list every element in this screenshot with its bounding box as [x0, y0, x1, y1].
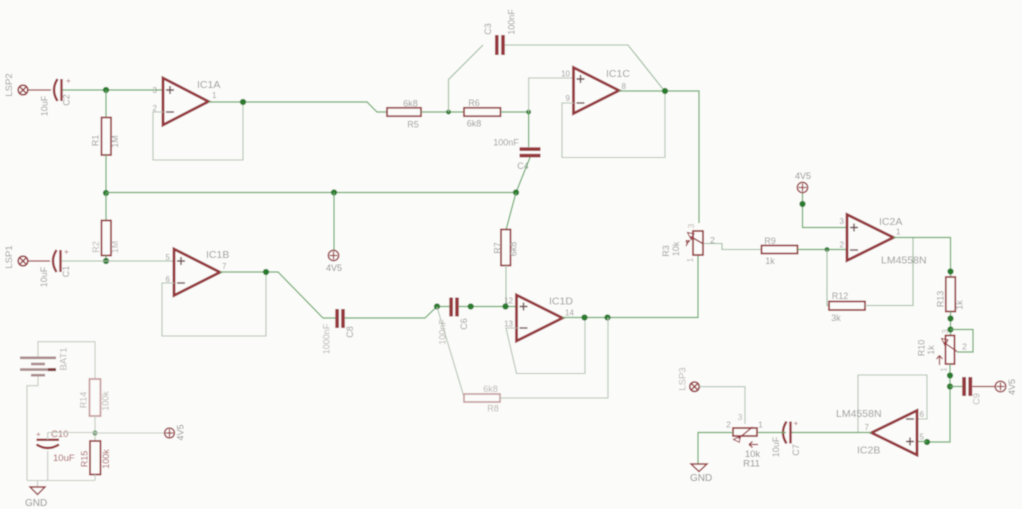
svg-text:10uF: 10uF [39, 266, 49, 287]
node R13 bottom [947, 315, 953, 321]
svg-text:R10: R10 [916, 340, 926, 357]
wire R11 left to GND [698, 433, 733, 465]
potentiometer R3 10k [661, 223, 715, 262]
solder pad LSP3 [678, 367, 700, 391]
svg-text:2: 2 [962, 342, 967, 352]
resistor R8 6k8 [464, 384, 500, 414]
wire 4V5 stub [333, 193, 335, 251]
svg-text:10k: 10k [671, 241, 681, 256]
wire LSP2 to C2 [28, 89, 51, 91]
svg-text:6k8: 6k8 [467, 119, 482, 129]
battery BAT1 [20, 347, 70, 375]
svg-text:IC2A: IC2A [879, 216, 902, 228]
svg-text:C3: C3 [483, 23, 493, 35]
svg-text:IC1B: IC1B [206, 249, 229, 261]
wire 4V5 to IC2A pin3 [803, 194, 848, 228]
potentiometer R10 1k [916, 329, 967, 372]
svg-text:3: 3 [840, 217, 845, 226]
wire IC1B output to C8 [220, 272, 336, 318]
svg-text:C2: C2 [61, 94, 71, 106]
resistor R2 1M [91, 221, 120, 256]
op-amp IC1C [561, 68, 630, 114]
resistor R13 1k [935, 277, 964, 312]
svg-text:R2: R2 [91, 241, 101, 253]
wire C3 to IC1C output [505, 45, 665, 91]
wire battery top to R14 [38, 342, 95, 379]
svg-text:GND: GND [690, 473, 712, 484]
svg-text:R14: R14 [78, 392, 88, 409]
svg-text:3: 3 [153, 86, 158, 95]
node C4 top junction [526, 110, 531, 115]
node R8 tap [604, 314, 610, 320]
svg-text:C10: C10 [51, 429, 68, 440]
svg-text:100k: 100k [100, 391, 110, 411]
svg-text:R9: R9 [764, 236, 776, 246]
svg-text:100nF: 100nF [437, 319, 447, 345]
wire to 4V5 left [95, 432, 164, 434]
capacitor C4 100nF [493, 138, 540, 172]
wire R6 right lead [501, 111, 529, 113]
svg-text:R13: R13 [935, 291, 945, 308]
wire C9 to 4V5 [973, 386, 996, 388]
wire R12 branch [827, 250, 829, 306]
svg-text:2: 2 [840, 241, 845, 250]
op-amp IC2A [840, 215, 927, 267]
svg-text:9: 9 [566, 94, 571, 103]
wire C4 bottom diagonal [516, 158, 530, 193]
capacitor C3 100nF [483, 9, 517, 55]
svg-text:4V5: 4V5 [1007, 379, 1017, 395]
op-amp IC1B [166, 249, 230, 296]
svg-text:1: 1 [896, 228, 901, 237]
wire IC2B feedback [858, 375, 927, 432]
wire C10 top [48, 433, 95, 440]
wire R5 to R6 [421, 111, 464, 113]
svg-text:BAT1: BAT1 [59, 347, 70, 370]
svg-text:1k: 1k [765, 256, 775, 266]
svg-text:+: + [36, 430, 41, 439]
wire C1 to IC1B pin5 [62, 260, 175, 262]
node IC1A output [240, 99, 246, 105]
wire LSP1 to C1 [28, 260, 50, 262]
svg-text:R7: R7 [492, 242, 502, 254]
capacitor C2 10uF polarized [39, 77, 71, 117]
wire IC1B feedback [162, 272, 266, 336]
resistor R15 100k [79, 441, 111, 475]
svg-text:10uF: 10uF [53, 453, 75, 464]
capacitor C8 1000nF [321, 309, 355, 354]
resistor R9 1k [762, 236, 798, 266]
svg-text:13: 13 [504, 320, 513, 329]
wire IC1D output [563, 255, 699, 318]
svg-text:3k: 3k [831, 313, 841, 323]
svg-text:C6: C6 [459, 318, 469, 330]
wire R10 bottom to IC2B pin5 [927, 364, 950, 442]
svg-text:LSP2: LSP2 [4, 73, 15, 96]
svg-text:+: + [794, 419, 799, 428]
svg-text:6k8: 6k8 [403, 99, 418, 109]
svg-text:R5: R5 [407, 120, 419, 130]
svg-text:7: 7 [865, 423, 870, 432]
svg-text:LSP1: LSP1 [4, 245, 15, 268]
supply 4V5 mid [326, 250, 342, 273]
resistor R7 6k8 [492, 230, 518, 266]
node C6 right [468, 303, 474, 309]
wire to R8 diagonal [437, 307, 464, 397]
wire R2 bottom lead [105, 256, 107, 262]
supply 4V5 top right [795, 171, 811, 193]
capacitor C9 [962, 377, 981, 405]
op-amp IC1D [504, 295, 574, 341]
svg-text:C1: C1 [61, 266, 71, 278]
node 4V5 tap [331, 189, 337, 195]
wire IC2B output to C7 [792, 432, 872, 434]
capacitor C6 100nF [437, 298, 469, 345]
wire R14 bottom [94, 416, 96, 441]
op-amp IC2B [836, 408, 925, 457]
svg-text:4V5: 4V5 [326, 263, 342, 273]
node IC2B pin5 [924, 439, 930, 445]
node IC1C output [662, 88, 668, 94]
svg-text:100nF: 100nF [493, 138, 519, 148]
svg-text:12: 12 [504, 297, 513, 306]
svg-text:10uF: 10uF [771, 436, 781, 457]
svg-text:LSP3: LSP3 [678, 367, 689, 390]
wire C6 to IC1D pin12 [459, 306, 517, 308]
svg-text:C9: C9 [971, 393, 981, 405]
svg-text:IC1A: IC1A [197, 79, 220, 91]
svg-text:+: + [66, 77, 71, 86]
svg-text:C8: C8 [345, 326, 355, 338]
svg-text:R1: R1 [90, 135, 100, 147]
wire R1 top lead [105, 90, 107, 118]
svg-text:100k: 100k [101, 449, 111, 469]
wire R12 to output [865, 238, 913, 306]
node B junction [103, 190, 109, 196]
wire R1 bottom lead [105, 155, 107, 193]
svg-text:5: 5 [920, 433, 925, 442]
solder pad LSP1 [4, 245, 28, 268]
wire C9 left lead [950, 386, 962, 388]
node R12 branch [825, 247, 830, 252]
wire R10 wiper tie box [951, 330, 974, 353]
wire IC1A feedback [153, 102, 243, 160]
svg-text:5: 5 [166, 253, 171, 262]
svg-text:6: 6 [920, 410, 925, 419]
svg-text:LM4558N: LM4558N [836, 408, 882, 420]
wire C8 to C6 [345, 307, 450, 319]
wire R3 wiper to R9 [704, 244, 762, 250]
svg-text:6k8: 6k8 [483, 384, 498, 394]
svg-text:8: 8 [622, 82, 627, 91]
ground GND right [690, 464, 712, 484]
node 4V5 stub [799, 201, 805, 207]
node IC1B output [263, 269, 269, 275]
svg-text:LM4558N: LM4558N [881, 255, 927, 267]
svg-text:IC2B: IC2B [857, 445, 880, 457]
node above R13 [947, 268, 953, 274]
wire IC1C feedback [562, 91, 665, 158]
svg-text:1: 1 [940, 367, 949, 372]
solder pad LSP2 [4, 73, 28, 96]
resistor R1 1M [90, 118, 120, 156]
svg-text:1k: 1k [954, 300, 964, 310]
node C3 branch [446, 110, 451, 115]
capacitor C1 10uF polarized [39, 248, 71, 288]
wire C4 top lead [528, 112, 530, 147]
wire long horizontal bus [106, 192, 516, 194]
node at C2/R1 [103, 87, 109, 93]
svg-text:R12: R12 [832, 291, 849, 301]
wire IC2A output [894, 238, 951, 278]
svg-text:100nF: 100nF [506, 9, 516, 35]
node C9 tap [947, 383, 953, 389]
wire R7 top diagonal [506, 193, 516, 231]
svg-text:GND: GND [25, 498, 47, 509]
wire IC1C output [619, 91, 699, 223]
wire R9 to IC2A pin2 [798, 249, 848, 251]
node C junction [103, 258, 109, 264]
node end of bus [513, 189, 519, 195]
wire IC1D feedback [506, 318, 585, 374]
svg-text:1: 1 [758, 420, 763, 430]
wire R2 top lead [105, 193, 107, 221]
svg-text:4V5: 4V5 [175, 424, 185, 440]
node wiper box tap [947, 326, 953, 332]
svg-text:IC1C: IC1C [606, 68, 630, 80]
wire C3 branch riser [449, 45, 484, 112]
resistor R14 100k [78, 379, 110, 416]
wire C2 to IC1A pin3 [63, 89, 164, 91]
svg-text:R8: R8 [487, 404, 499, 414]
wire C7 to R11 [757, 432, 786, 434]
svg-text:2: 2 [726, 420, 731, 430]
svg-text:R15: R15 [79, 451, 89, 468]
wire R7 bottom lead [505, 266, 507, 307]
node R7 bottom junction [502, 303, 508, 309]
wire R8 right lead [500, 318, 608, 399]
svg-text:3: 3 [687, 223, 696, 228]
svg-text:1: 1 [212, 91, 217, 100]
wire IC1A output [209, 102, 388, 112]
svg-text:6k8: 6k8 [508, 242, 518, 257]
node C6 left [434, 303, 440, 309]
wire to IC1C pin10 [529, 78, 574, 112]
wire battery bottom to rail [27, 377, 38, 481]
wire R15 bottom and rail [27, 475, 95, 488]
svg-text:1M: 1M [110, 241, 120, 254]
node feedback tap [581, 314, 587, 320]
resistor R6 6k8 [464, 98, 501, 129]
ground GND left [25, 487, 47, 509]
svg-text:1: 1 [686, 257, 695, 262]
node divider [92, 430, 97, 435]
op-amp IC1A [153, 78, 221, 125]
svg-text:4V5: 4V5 [795, 171, 811, 181]
supply 4V5 left [165, 424, 186, 440]
capacitor C7 10uF polarized [771, 419, 801, 457]
svg-text:+: + [64, 248, 69, 257]
svg-text:10: 10 [561, 70, 570, 79]
wire LSP3 to R11 pin3 [700, 387, 746, 424]
supply 4V5 right [995, 379, 1017, 395]
svg-text:14: 14 [565, 309, 574, 318]
svg-text:IC1D: IC1D [549, 296, 573, 308]
svg-text:R3: R3 [661, 245, 671, 257]
svg-text:3: 3 [738, 412, 743, 422]
wire R13 bottom [950, 312, 952, 336]
svg-text:R11: R11 [743, 459, 760, 470]
svg-text:R6: R6 [468, 98, 480, 108]
svg-text:10uF: 10uF [39, 95, 49, 116]
svg-text:1M: 1M [110, 135, 120, 148]
svg-text:3: 3 [941, 329, 950, 334]
potentiometer R11 10k [726, 412, 763, 470]
resistor R12 3k [829, 291, 865, 323]
svg-text:7: 7 [222, 262, 227, 271]
svg-text:1k: 1k [926, 345, 936, 355]
wire C10 bottom [47, 451, 49, 481]
svg-text:C7: C7 [791, 444, 801, 456]
capacitor C10 10uF polarized [36, 429, 75, 464]
wire pin5 stub [917, 441, 927, 443]
svg-text:1000nF: 1000nF [321, 323, 331, 354]
resistor R5 6k8 [387, 99, 421, 130]
node pin1 R10 [947, 372, 953, 378]
